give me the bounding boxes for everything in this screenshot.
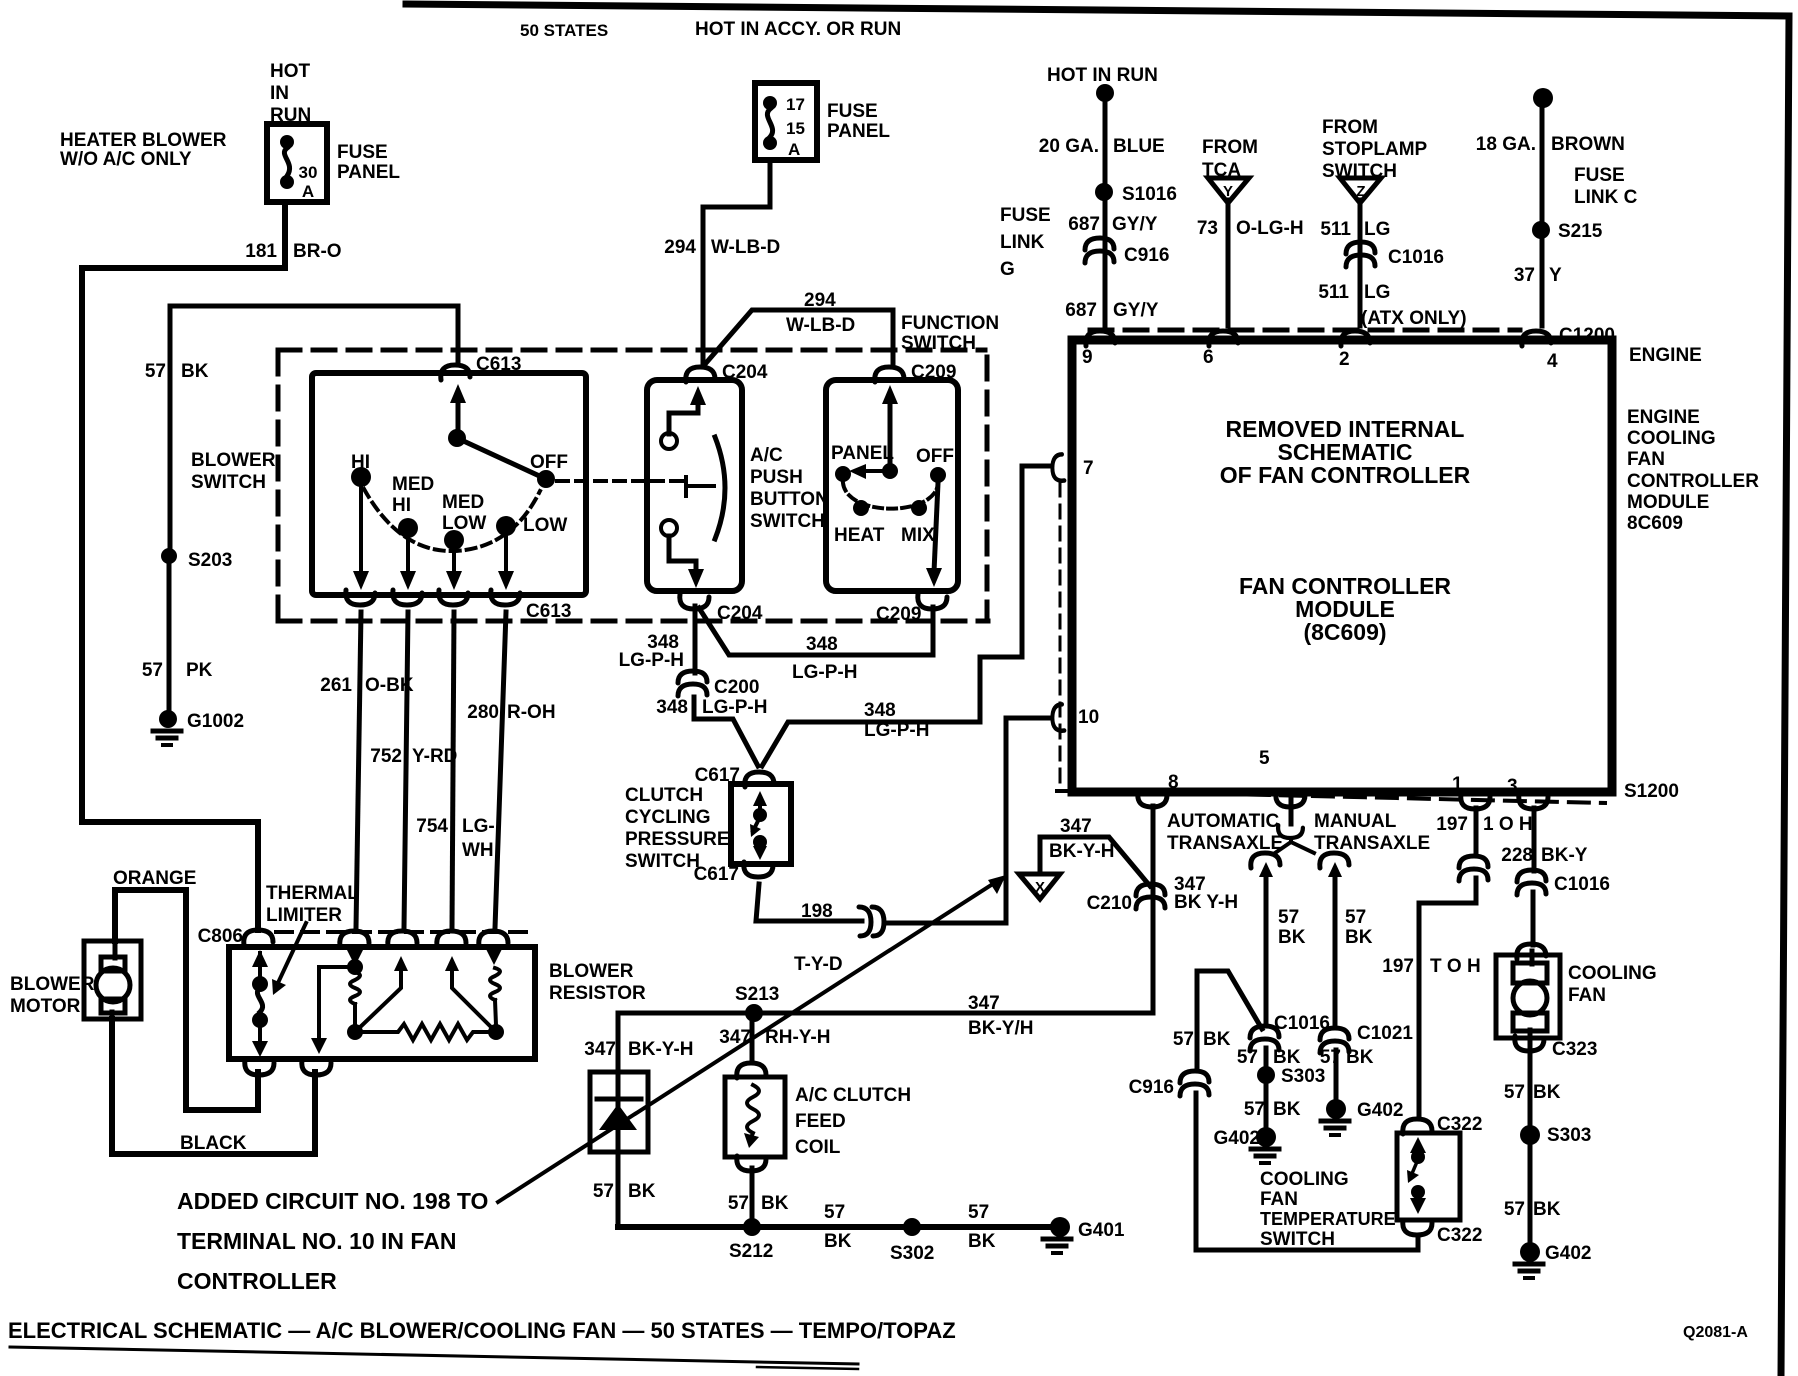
svg-text:30: 30 [299,163,318,182]
svg-text:FEED: FEED [795,1111,846,1132]
svg-text:Z: Z [1356,183,1365,200]
svg-text:G: G [1000,259,1015,280]
svg-text:THERMAL: THERMAL [266,883,359,904]
svg-text:S215: S215 [1558,221,1603,242]
svg-text:BK: BK [1346,1047,1374,1068]
ground G1002 [159,710,177,728]
svg-text:9: 9 [1082,347,1093,368]
svg-text:LG-P-H: LG-P-H [792,662,857,683]
svg-text:S302: S302 [890,1243,934,1264]
svg-text:GY/Y: GY/Y [1112,214,1158,235]
clutch coil element [747,1085,759,1140]
svg-text:C210: C210 [1087,893,1132,914]
svg-text:(ATX ONLY): (ATX ONLY) [1361,308,1467,329]
svg-text:181: 181 [245,241,277,262]
connector C617 (bottom) [744,862,773,877]
svg-text:C1016: C1016 [1554,874,1610,895]
svg-text:A: A [788,140,800,159]
wire 198 T-Y-D [756,884,862,921]
svg-text:C916: C916 [1124,245,1169,266]
wire 57 BK coil to S212 [750,1168,755,1227]
svg-text:SWITCH: SWITCH [750,511,825,532]
svg-text:BK: BK [1533,1199,1561,1220]
connector pin 3 [1519,794,1548,809]
svg-text:LOW: LOW [442,513,486,534]
svg-text:A/C CLUTCH: A/C CLUTCH [795,1085,911,1106]
svg-text:CLUTCH: CLUTCH [625,785,703,806]
wire feed arrow into switch [456,398,461,438]
power feed 18 GA. BROWN fuse link C [1533,88,1553,108]
dashed connector line below module / S1200 [1057,791,1605,803]
wire 197 T O H to C322 [1419,878,1476,1116]
inline connector on pin 1 wire [1459,856,1488,881]
wire C209 to C204 348 LG-P-H [699,607,933,655]
svg-text:57: 57 [824,1202,845,1223]
svg-text:BK-Y-H: BK-Y-H [628,1039,693,1060]
node LOW [496,516,516,536]
svg-text:BK: BK [181,361,209,382]
connector C806 [244,930,273,945]
svg-text:PANEL: PANEL [831,443,894,464]
dashed branch line left of module [1059,483,1062,786]
svg-text:PUSH: PUSH [750,467,803,488]
svg-text:CONTROLLER: CONTROLLER [1627,471,1759,492]
svg-text:C322: C322 [1437,1225,1482,1246]
svg-text:37: 37 [1514,265,1535,286]
svg-text:T O H: T O H [1430,956,1481,977]
svg-text:7: 7 [1083,458,1094,479]
svg-text:347: 347 [1060,816,1092,837]
connector pin 1 [1461,794,1490,809]
wire LOW to C613 [504,536,508,578]
selector arrow to PANEL [858,469,884,473]
svg-text:Q2081-A: Q2081-A [1683,1324,1748,1341]
splice S302 [903,1218,921,1236]
temperature switch contacts [1410,1137,1426,1153]
svg-text:S303: S303 [1547,1125,1591,1146]
svg-text:PANEL: PANEL [827,121,890,142]
svg-text:LOW: LOW [523,515,567,536]
svg-text:W-LB-D: W-LB-D [786,315,855,336]
connector (clutch coil bottom) [737,1156,766,1171]
wire 752 Y-RD [404,612,408,928]
function switch box [826,380,958,591]
svg-text:PANEL: PANEL [337,162,400,183]
branch to motor feed exit [319,967,355,1042]
pressure switch contacts [753,791,767,806]
svg-text:752: 752 [370,746,402,767]
resistor coil 2 [492,947,496,958]
page top/right border [406,4,1789,1376]
svg-text:S303: S303 [1281,1066,1325,1087]
svg-text:TEMPERATURE: TEMPERATURE [1260,1209,1396,1229]
svg-text:G402: G402 [1545,1243,1591,1264]
svg-text:BLOWER: BLOWER [10,974,95,995]
svg-text:HI: HI [392,495,411,516]
svg-text:C204: C204 [717,603,763,624]
svg-text:BK: BK [1278,927,1306,948]
wire 294 W-LB-D branch to function switch C209 [706,310,893,366]
switch common node [448,429,466,447]
connector C1200 pin 4 [1522,331,1551,346]
svg-text:SWITCH: SWITCH [625,851,700,872]
svg-text:W/O A/C ONLY: W/O A/C ONLY [60,149,192,170]
terminal circle (lower) [661,520,677,536]
splice S215 [1532,221,1550,239]
svg-text:57: 57 [142,660,163,681]
connector (automatic branch) [1251,853,1280,868]
svg-text:347: 347 [719,1027,751,1048]
svg-text:COOLING: COOLING [1568,963,1657,984]
svg-text:347: 347 [584,1039,616,1060]
connector C1016 (pin 3) [1517,870,1546,895]
connector C322 (top) [1403,1119,1432,1134]
svg-text:BK: BK [968,1231,996,1252]
wire 280 R-OH [495,612,506,928]
svg-text:197: 197 [1436,814,1468,835]
dashed detent arc [364,489,540,551]
dashed linkage OFF to A/C switch [557,479,686,483]
svg-text:A: A [302,182,314,201]
svg-text:MOTOR: MOTOR [10,996,81,1017]
connector C322 (bottom) [1403,1220,1432,1235]
svg-text:HEATER BLOWER: HEATER BLOWER [60,130,227,151]
node OFF [537,470,555,488]
node HI [351,467,371,487]
splice S213 [745,1004,763,1022]
wire feed arrow inside function switch [882,385,898,404]
svg-text:BR-O: BR-O [293,241,342,262]
svg-text:OFF: OFF [916,446,954,467]
svg-text:Y: Y [1223,183,1233,200]
connector C1016 (stoplamp) [1346,242,1375,267]
svg-text:6: 6 [1203,347,1214,368]
fuse panel (30 A fuse) [267,124,327,202]
cooling fan temperature switch box [1397,1133,1460,1220]
svg-text:8C609: 8C609 [1627,513,1683,534]
svg-text:O-LG-H: O-LG-H [1236,218,1304,239]
svg-text:AUTOMATIC: AUTOMATIC [1167,811,1280,832]
node OFF [930,467,946,483]
wire 754 LG-WH [452,612,454,928]
wire to cooling fan [1531,892,1536,945]
svg-text:HI: HI [351,452,370,473]
connector C200 [678,671,707,696]
splice S303 [1257,1066,1275,1084]
svg-text:5: 5 [1259,748,1270,769]
svg-text:8: 8 [1168,772,1179,793]
wire 20 GA BLUE / 687 GY/Y to pin 9 [1103,93,1108,326]
svg-text:FAN: FAN [1627,449,1665,470]
wire 347 BK-Y-H to diode [616,1013,621,1227]
resistor element feed w/ arrow [353,947,357,962]
svg-text:T-Y-D: T-Y-D [794,954,843,975]
wire 57 BK to S303/G402 [1264,1048,1269,1135]
connector (754 feed) [437,931,466,946]
connector pin 10 [1052,704,1064,730]
svg-text:C1016: C1016 [1388,247,1444,268]
svg-text:347: 347 [968,993,1000,1014]
wire pin 8 down to 347 BK-Y/H run [618,806,1153,1013]
svg-text:73: 73 [1197,218,1218,239]
connector C209 (top) [875,367,904,382]
svg-text:C323: C323 [1552,1039,1597,1060]
connector pin 9 [1086,331,1115,346]
ground G402 (automatic) [1256,1127,1276,1147]
wire module to transaxle fork [1289,794,1294,824]
svg-text:PK: PK [186,660,213,681]
wire 228 BK-Y from pin 3 [1532,808,1537,871]
svg-text:BK: BK [1273,1047,1301,1068]
svg-text:MANUAL: MANUAL [1314,811,1397,832]
node R1 top [347,959,363,975]
connector pin 6 [1209,331,1238,346]
svg-text:MED: MED [392,474,434,495]
connector (motor feed out) [302,1060,331,1075]
svg-text:TRANSAXLE: TRANSAXLE [1314,833,1430,854]
svg-text:BUTTON: BUTTON [750,489,829,510]
svg-text:C806: C806 [198,926,243,947]
contact arc [715,437,725,539]
svg-text:SWITCH: SWITCH [901,333,976,354]
node PANEL [835,466,851,482]
connector C204 (bottom) [680,594,709,609]
svg-text:57: 57 [1173,1029,1194,1050]
svg-text:17: 17 [786,95,805,114]
svg-text:754: 754 [416,816,448,837]
svg-text:PRESSURE: PRESSURE [625,829,730,850]
wire C200 to C617 (left leg of V) [694,697,758,766]
svg-text:C613: C613 [526,601,571,622]
dashed connector line over resistor [276,930,534,934]
A/C push button switch box [647,380,742,591]
svg-text:1 O H: 1 O H [1483,814,1533,835]
svg-text:348: 348 [806,634,838,655]
connector C916 [1085,238,1114,263]
svg-text:BK: BK [761,1193,789,1214]
svg-text:BK Y-H: BK Y-H [1174,892,1238,913]
svg-text:3: 3 [1507,776,1518,797]
svg-text:C916: C916 [1129,1077,1174,1098]
ground G401 [1050,1217,1070,1237]
svg-text:BLOWER: BLOWER [549,961,634,982]
ground G402 (fan) [1520,1242,1540,1262]
svg-text:57: 57 [1244,1099,1265,1120]
connector C916 (lower) [1180,1071,1209,1096]
connector C1016 (automatic) [1250,1026,1279,1051]
diode box [590,1072,648,1152]
node HEAT [853,500,869,516]
wire C916 branch from C1016 junction [1197,971,1262,1071]
svg-text:LINK C: LINK C [1574,187,1638,208]
connector (thermal limiter out) [245,1060,274,1075]
connector pin 7 [1052,454,1064,480]
svg-text:C1021: C1021 [1357,1023,1413,1044]
svg-text:FUSE: FUSE [827,101,878,122]
linkage tick [686,477,714,496]
connector (280 feed) [479,931,508,946]
connector (fan top) [1517,944,1546,959]
wire 511 LG to pin 2 [1358,200,1363,326]
A/C clutch feed coil box [725,1077,785,1157]
splice S303 (fan) [1520,1125,1540,1145]
svg-text:CYCLING: CYCLING [625,807,711,828]
svg-text:COOLING: COOLING [1627,428,1716,449]
page bottom rule [10,1347,858,1364]
svg-text:ENGINE: ENGINE [1627,407,1700,428]
wire black from motor [112,1019,315,1154]
svg-text:10: 10 [1078,707,1099,728]
svg-text:CONTROLLER: CONTROLLER [177,1268,337,1294]
svg-text:STOPLAMP: STOPLAMP [1322,139,1428,160]
wire orange loop to thermal limiter [115,890,258,1110]
svg-text:S212: S212 [729,1241,773,1262]
svg-text:FROM: FROM [1202,137,1258,158]
terminal circle (upper) [661,433,677,449]
wire HI to C613 [359,487,363,578]
wire 294 W-LB-D from fuse to C204 [703,160,770,366]
ground G402 (manual) [1326,1099,1346,1119]
svg-text:687: 687 [1065,300,1097,321]
svg-text:15: 15 [786,119,805,138]
svg-text:BLACK: BLACK [180,1133,247,1154]
svg-text:228: 228 [1501,845,1533,866]
svg-text:OF FAN CONTROLLER: OF FAN CONTROLLER [1220,462,1471,488]
connector pin 2 [1341,331,1370,346]
svg-text:SWITCH: SWITCH [1260,1229,1335,1250]
wire 198 to module pin 10 [886,718,1051,923]
resistor coil 1 [350,972,360,1004]
svg-text:LG: LG [1364,219,1390,240]
connector C613 (bottom, 4 cavities) [346,590,375,605]
svg-text:HEAT: HEAT [834,525,885,546]
svg-text:MED: MED [442,492,484,513]
dashed connector line along module top [1090,328,1520,333]
wire 57 BK fan to ground [1528,1048,1533,1250]
svg-text:BK: BK [1533,1082,1561,1103]
connector pin 5 feed [1276,792,1305,807]
svg-text:ADDED CIRCUIT NO. 198 TO: ADDED CIRCUIT NO. 198 TO [177,1188,488,1214]
svg-text:2: 2 [1339,349,1350,370]
jumper arrow to 754 terminal [452,966,496,1032]
svg-text:BK-Y: BK-Y [1541,845,1588,866]
svg-text:348: 348 [864,700,896,721]
svg-text:FUSE: FUSE [1000,205,1051,226]
svg-text:LG-P-H: LG-P-H [619,650,684,671]
connector C1021 [1320,1028,1349,1053]
svg-text:(8C609): (8C609) [1303,619,1386,645]
connector C323 (fan bottom) [1515,1036,1544,1051]
connector C210 [1136,884,1165,909]
thermal limiter element [258,953,262,980]
svg-text:LG: LG [1364,282,1390,303]
connector C204 (top) [686,367,715,382]
svg-text:MIX: MIX [901,525,935,546]
svg-text:HOT IN RUN: HOT IN RUN [1047,65,1158,86]
svg-text:FAN: FAN [1568,985,1606,1006]
svg-text:57: 57 [1504,1199,1525,1220]
splice S212 [743,1218,761,1236]
svg-text:R-OH: R-OH [507,702,556,723]
svg-text:TRANSAXLE: TRANSAXLE [1167,833,1283,854]
fork connector [1278,825,1303,838]
svg-text:FUSE: FUSE [1574,165,1625,186]
svg-text:BK: BK [1203,1029,1231,1050]
wire 181 BR-O long run to blower motor circuit [82,268,285,930]
svg-text:20 GA.: 20 GA. [1039,136,1099,157]
svg-text:4: 4 [1547,351,1558,372]
svg-text:FROM: FROM [1322,117,1378,138]
splice S1016 [1095,183,1113,201]
connector (752 feed) [388,931,417,946]
wire 57 PK to ground [167,556,172,716]
node MIX [911,500,927,516]
svg-text:BROWN: BROWN [1551,134,1625,155]
wire MED LOW to C613 [452,550,456,578]
svg-text:MODULE: MODULE [1627,492,1709,513]
annotation arrow (added circuit 198) [498,880,999,1202]
svg-text:198: 198 [801,901,833,922]
svg-text:S1200: S1200 [1624,781,1679,802]
svg-text:COIL: COIL [795,1137,841,1158]
svg-text:RH-Y-H: RH-Y-H [765,1027,830,1048]
svg-text:511: 511 [1318,282,1349,303]
svg-text:HOT: HOT [270,61,311,82]
wire lower terminal to C204 bottom [669,536,696,574]
fuse panel (fuse 17, 15 A) [755,83,817,160]
wire 57 BK branch to blower switch C613 [170,306,458,556]
svg-text:LINK: LINK [1000,232,1045,253]
connector C209 (bottom) [918,594,947,609]
connector C613 (top) [441,365,470,380]
svg-text:C617: C617 [694,864,739,885]
wire 197 1 O H from pin 1 [1474,808,1479,856]
node R2 bottom [488,1024,504,1040]
svg-text:ORANGE: ORANGE [113,868,196,889]
blower motor [84,941,141,1019]
clutch cycling pressure switch box [731,784,791,864]
svg-text:BK-Y/H: BK-Y/H [968,1018,1033,1039]
svg-text:50 STATES: 50 STATES [520,21,608,40]
svg-text:BK: BK [1345,927,1373,948]
wire 73 O-LG-H to pin 6 [1226,200,1231,326]
wire feed arrow inside A/C switch [690,386,706,405]
svg-text:197: 197 [1382,956,1414,977]
wire MED HI to C613 [406,538,410,578]
svg-text:57: 57 [1320,1047,1341,1068]
svg-text:FUSE: FUSE [337,142,388,163]
node R1 bottom [347,1024,363,1040]
svg-text:X: X [1035,879,1045,896]
wire 57 BK (manual) w/ arrow [1328,862,1342,877]
svg-text:C209: C209 [876,604,921,625]
svg-text:LG-P-H: LG-P-H [702,697,767,718]
wire to cooling fan temperature switch return [1196,1093,1418,1250]
fan controller module box [1072,340,1612,792]
wire 348 LG-P-H right leg of V up to module pin 7 [762,466,1051,766]
cooling fan motor [1496,955,1560,1038]
svg-text:18 GA.: 18 GA. [1476,134,1536,155]
svg-text:ELECTRICAL SCHEMATIC — A/C BLO: ELECTRICAL SCHEMATIC — A/C BLOWER/COOLIN… [8,1318,956,1343]
svg-text:261: 261 [320,675,352,696]
svg-text:BLOWER: BLOWER [191,450,276,471]
svg-text:GY/Y: GY/Y [1113,300,1159,321]
svg-text:BK: BK [824,1231,852,1252]
svg-text:W-LB-D: W-LB-D [711,237,780,258]
inline connector on 198 wire [859,907,884,936]
svg-text:57: 57 [1345,907,1366,928]
node MED LOW [444,530,464,550]
